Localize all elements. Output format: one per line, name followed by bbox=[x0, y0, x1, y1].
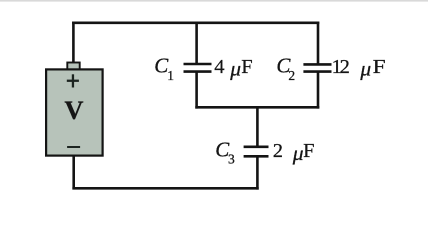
wire: battery top lead bbox=[72, 22, 75, 63]
value 2 uF bbox=[273, 140, 315, 165]
battery V: minus label bbox=[67, 146, 80, 148]
label C3 bbox=[215, 137, 235, 166]
wire: battery bottom lead bbox=[72, 156, 75, 190]
svg-text:2: 2 bbox=[288, 68, 295, 83]
battery V: terminal nub bbox=[67, 63, 79, 70]
label C1 bbox=[154, 54, 174, 84]
svg-text:1: 1 bbox=[167, 68, 174, 83]
battery V: body box bbox=[46, 69, 103, 155]
svg-text:V: V bbox=[64, 95, 83, 125]
wire: bottom horizontal bus bbox=[72, 187, 258, 190]
battery V: V label bbox=[64, 95, 83, 125]
value 4 uF bbox=[214, 56, 253, 81]
wire: middle horizontal bus bbox=[195, 106, 319, 109]
label C2 bbox=[276, 54, 295, 84]
svg-text:2μF: 2μF bbox=[273, 140, 315, 165]
wire: C1 top lead bbox=[195, 22, 198, 64]
wire: C2 bottom lead bbox=[317, 72, 320, 109]
wire: C3 top lead bbox=[256, 106, 259, 147]
wire: top horizontal bus bbox=[72, 21, 319, 24]
capacitor C2 plates bbox=[303, 64, 331, 71]
wire: C3 bottom lead bbox=[256, 156, 259, 189]
value 12 uF bbox=[332, 56, 386, 81]
battery V: plus label bbox=[67, 74, 79, 87]
capacitor C3 plates bbox=[244, 147, 269, 157]
capacitor C1 plates bbox=[184, 64, 212, 72]
svg-text:3: 3 bbox=[228, 152, 235, 167]
wire: C2 top lead bbox=[317, 22, 320, 64]
svg-text:4μF: 4μF bbox=[214, 56, 253, 81]
wire: C1 bottom lead bbox=[195, 72, 198, 109]
